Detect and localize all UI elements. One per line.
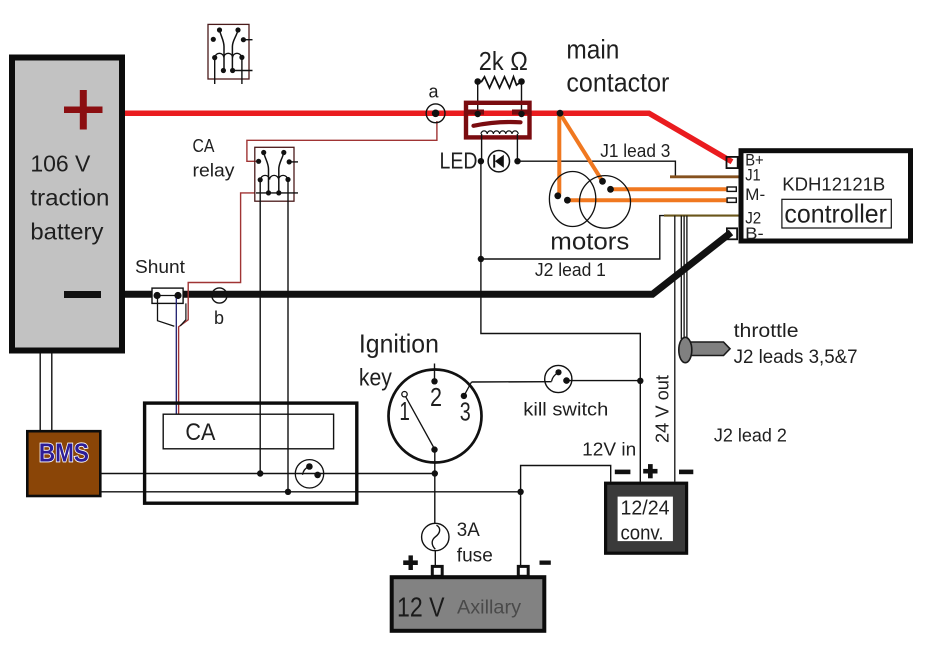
svg-text:J2 lead 1: J2 lead 1 [535, 260, 606, 280]
CA connector circle [295, 460, 323, 488]
svg-text:a: a [429, 82, 440, 102]
svg-text:J1: J1 [745, 166, 761, 185]
CA relay [255, 147, 298, 201]
resistor 2k ohm [474, 46, 527, 114]
svg-text:b: b [214, 308, 224, 328]
svg-text:3A: 3A [457, 520, 480, 541]
svg-text:relay: relay [193, 161, 235, 181]
12 V auxiliary battery [392, 555, 551, 630]
shunt [152, 288, 186, 326]
svg-text:Shunt: Shunt [135, 257, 185, 277]
wire: thick black battery negative to controller B- [123, 233, 731, 295]
battery negative symbol [64, 291, 101, 298]
converter terminal - (12V in) [615, 470, 631, 475]
svg-text:J1 lead 3: J1 lead 3 [600, 141, 670, 161]
svg-text:BMS: BMS [39, 438, 89, 468]
svg-text:throttle: throttle [734, 321, 799, 342]
junction 12V minus [517, 489, 523, 495]
svg-text:J2 lead 2: J2 lead 2 [714, 426, 787, 446]
svg-text:Ignition: Ignition [359, 328, 439, 358]
svg-text:kill switch: kill switch [523, 400, 608, 420]
wire: BMS to 12V system (wire B) [100, 491, 521, 493]
svg-text:fuse: fuse [457, 546, 493, 567]
svg-text:CA: CA [193, 136, 215, 156]
wire: ignition down through CA wire to fuse and 12V battery + [432, 450, 438, 566]
wire: LED right to J1 (thin black) [518, 161, 676, 177]
svg-text:2k Ω: 2k Ω [479, 46, 528, 76]
BMS [27, 431, 100, 496]
wire: J2 lead 1 [481, 216, 669, 280]
wire: 12V battery minus up to junction and converter minus [517, 440, 636, 566]
svg-text:B-: B- [745, 224, 764, 243]
svg-text:1: 1 [399, 396, 410, 426]
svg-text:key: key [359, 365, 392, 392]
3A fuse [422, 520, 493, 567]
junction ignition to CA wire [432, 470, 438, 476]
terminal M- lower [727, 198, 736, 202]
svg-text:traction: traction [30, 185, 109, 211]
wire: BMS to CA (wire A) [100, 473, 435, 475]
svg-text:contactor: contactor [566, 68, 669, 98]
junction at kill switch wire [637, 378, 643, 384]
label Shunt [135, 257, 185, 277]
svg-text:12 V: 12 V [397, 592, 445, 623]
kill switch [523, 365, 608, 419]
svg-text:12V in: 12V in [582, 440, 636, 460]
terminal M- upper [727, 187, 736, 191]
KDH12121B controller [727, 150, 911, 243]
wire: CA relay coil to CA unit (right) [285, 180, 291, 495]
wire: J1 lead (brown) [600, 141, 739, 177]
wire: thick red battery positive to controller B+ [123, 113, 732, 162]
svg-text:106 V: 106 V [30, 151, 91, 177]
converter terminal - (24V out) [679, 470, 693, 475]
terminal B- [727, 228, 737, 239]
terminal B+ [727, 157, 738, 168]
wire: LED left down to kill-switch junction and converter + [478, 161, 644, 482]
LED [440, 147, 521, 173]
battery positive symbol [64, 107, 103, 114]
wire: battery to BMS (two leads) [40, 353, 52, 431]
svg-text:2: 2 [430, 382, 442, 412]
svg-text:motors: motors [550, 229, 629, 256]
node b [212, 288, 227, 328]
CA unit box [145, 403, 357, 503]
12/24 converter [606, 464, 694, 553]
label J2 lead 2 [714, 426, 787, 446]
orange motor wires [557, 110, 727, 200]
spare relay symbol top-left [208, 24, 253, 84]
wire: contactor coil to LED [482, 134, 518, 161]
battery terminal - [540, 561, 551, 565]
wire: CA relay coil to CA unit (left) [257, 180, 263, 477]
svg-text:3: 3 [460, 397, 471, 427]
wire: J2 breakout verticals (24V out + throttle leads) [675, 216, 687, 482]
motors [549, 172, 630, 256]
svg-text:LED: LED [440, 147, 478, 173]
svg-text:conv.: conv. [621, 523, 664, 545]
wire: J2 into controller (olive) [664, 215, 739, 217]
svg-text:battery: battery [30, 219, 104, 245]
svg-text:controller: controller [784, 198, 887, 228]
svg-text:Axillary: Axillary [457, 598, 522, 619]
svg-text:12/24: 12/24 [621, 498, 670, 520]
main contactor [466, 103, 530, 138]
svg-text:M-: M- [745, 185, 765, 204]
junction on red bus [557, 110, 564, 117]
node a [426, 82, 445, 123]
label CA relay [193, 136, 235, 181]
wire: thin red from CA relay to shunt [179, 193, 256, 414]
label 24 V out [653, 375, 673, 443]
converter terminal + [643, 469, 657, 474]
svg-text:J2 leads 3,5&7: J2 leads 3,5&7 [734, 347, 858, 368]
junction at J2 lead 1 tap [478, 256, 484, 262]
svg-text:KDH12121B: KDH12121B [782, 175, 885, 195]
svg-text:main: main [566, 35, 619, 65]
svg-text:24 V out: 24 V out [653, 375, 673, 443]
label main contactor [566, 35, 669, 98]
106 V traction battery [12, 58, 122, 351]
wire: ignition to kill switch to junction [472, 381, 641, 382]
svg-text:CA: CA [185, 419, 215, 446]
battery terminal + [403, 560, 418, 565]
throttle [679, 321, 858, 368]
Ignition key [359, 328, 482, 462]
wire: shunt to CA (blue sense lead) [175, 298, 177, 414]
wire: thin red from node a to CA relay [247, 121, 437, 161]
